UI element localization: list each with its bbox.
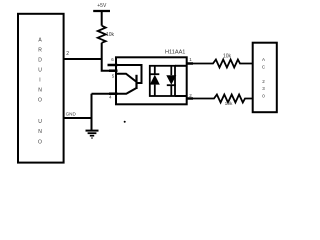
svg-text:10k: 10k bbox=[223, 54, 232, 60]
svg-text:10k: 10k bbox=[106, 32, 115, 38]
svg-text:+5V: +5V bbox=[97, 3, 107, 9]
svg-text:U: U bbox=[38, 119, 42, 125]
svg-text:H11AA1: H11AA1 bbox=[165, 50, 185, 56]
svg-text:I: I bbox=[39, 77, 40, 83]
svg-text:D: D bbox=[38, 57, 42, 63]
svg-text:GND: GND bbox=[66, 112, 77, 117]
svg-text:N: N bbox=[38, 87, 42, 93]
svg-text:U: U bbox=[38, 67, 42, 73]
svg-text:2: 2 bbox=[66, 51, 69, 57]
svg-text:O: O bbox=[38, 97, 42, 103]
svg-text:A: A bbox=[262, 57, 265, 62]
svg-text:10k: 10k bbox=[225, 101, 233, 107]
svg-text:O: O bbox=[38, 140, 42, 146]
svg-text:N: N bbox=[38, 129, 42, 135]
svg-text:R: R bbox=[38, 47, 42, 53]
